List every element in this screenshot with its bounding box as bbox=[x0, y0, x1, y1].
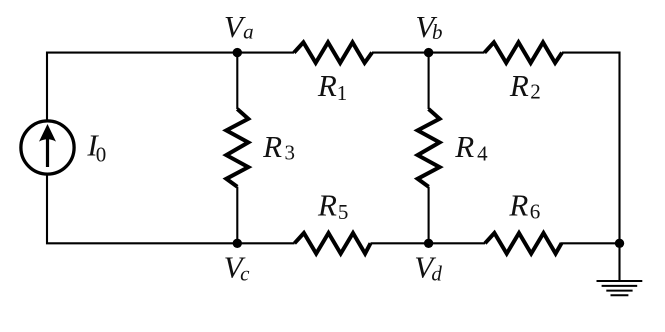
svg-text:4: 4 bbox=[477, 142, 488, 166]
svg-text:R: R bbox=[508, 188, 528, 223]
resistor R1 bbox=[294, 42, 372, 63]
wire bbox=[428, 53, 430, 109]
svg-text:1: 1 bbox=[337, 81, 348, 105]
node Vd bbox=[414, 239, 442, 286]
svg-text:R: R bbox=[317, 68, 337, 103]
wire bbox=[618, 243, 620, 281]
wire bbox=[47, 175, 295, 243]
svg-text:b: b bbox=[432, 20, 443, 44]
resistor R4 bbox=[418, 109, 440, 187]
node Vb bbox=[415, 9, 442, 57]
wire bbox=[47, 53, 294, 120]
svg-text:6: 6 bbox=[530, 199, 541, 223]
current source I0 bbox=[21, 121, 106, 174]
wire bbox=[562, 53, 620, 244]
svg-text:0: 0 bbox=[96, 142, 107, 166]
node at ground junction bbox=[615, 239, 624, 248]
svg-text:3: 3 bbox=[284, 141, 295, 165]
wire bbox=[428, 187, 430, 244]
wire bbox=[372, 52, 485, 54]
svg-text:2: 2 bbox=[530, 79, 541, 103]
svg-text:R: R bbox=[317, 188, 337, 223]
svg-text:R: R bbox=[262, 129, 282, 164]
wire bbox=[236, 53, 238, 109]
svg-text:a: a bbox=[243, 20, 254, 44]
wire bbox=[371, 242, 486, 244]
resistor R6 bbox=[485, 233, 562, 254]
resistor R3 bbox=[226, 109, 248, 187]
node Vc bbox=[224, 239, 251, 286]
wire bbox=[236, 187, 238, 244]
svg-text:R: R bbox=[509, 68, 529, 103]
wire bbox=[561, 242, 620, 244]
svg-text:c: c bbox=[240, 262, 250, 286]
resistor R2 bbox=[485, 42, 563, 63]
node Va bbox=[224, 9, 254, 57]
ground bbox=[597, 281, 643, 295]
svg-text:d: d bbox=[431, 262, 442, 286]
svg-text:5: 5 bbox=[338, 200, 349, 224]
svg-text:R: R bbox=[454, 129, 474, 164]
resistor R5 bbox=[295, 233, 371, 254]
